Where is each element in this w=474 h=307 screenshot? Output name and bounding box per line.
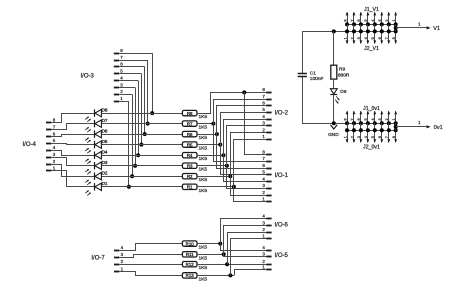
wire I/O-3 pin 7 to D7 row [147,60,149,124]
wire D4 anode to R4 [101,155,182,157]
I/O-6 pin 2 [262,227,271,233]
svg-text:5: 5 [364,19,368,21]
svg-text:1: 1 [392,118,396,120]
I/O-2 pin 6 [262,101,271,106]
wire R1 net to I/O-2 pin 1 [234,140,267,187]
I/O-3 pin 1 [114,96,129,102]
svg-text:I/O-1: I/O-1 [275,173,289,179]
svg-text:R2: R2 [187,174,193,179]
junction node R6 net [215,132,219,136]
wire I/O-4 pin 4 to D4 cathode [51,151,94,156]
svg-text:8: 8 [392,136,396,138]
connector I/O-2 label [275,110,289,116]
I/O-4 pin 2 [46,159,56,165]
wire R12 output to I/O-5 pin 2 [197,264,266,266]
svg-text:6: 6 [378,136,382,138]
svg-text:8: 8 [343,19,347,21]
junction node GND [332,121,336,125]
connector I/O-5 label [275,253,289,259]
I/O-6 pin 1 [262,234,271,239]
wire D5 anode to R5 [101,144,182,146]
junction node D1/I-O-3 [127,185,131,189]
wire R6 net to I/O-1 pin 6 [217,134,267,168]
svg-text:R11: R11 [186,252,194,257]
svg-text:2: 2 [350,136,354,138]
junction node D2/I-O-3 [130,174,134,178]
wire R12 net to I/O-6 pin 2 [228,233,267,265]
I/O-7 pin 4 [114,245,124,250]
wire I/O-7 pin 4 to R10 [119,244,182,251]
diode D3 [85,160,108,174]
I/O-1 pin 3 [262,183,271,188]
resistor R2 1K5 [182,174,207,184]
wire R8 output to I/O-2 pin 8 [197,93,266,114]
wire R13 net to I/O-5 pin 1 [235,270,267,276]
svg-text:4: 4 [364,136,368,138]
resistor R4 1K5 [182,153,207,163]
wire D9 to GND node [333,95,335,124]
I/O-3 pin 3 [114,82,135,87]
svg-text:D7: D7 [102,118,108,123]
I/O-4 pin 3 [46,152,56,158]
svg-text:3: 3 [378,118,382,120]
svg-text:D1: D1 [102,181,108,186]
I/O-5 pin 3 [262,252,271,257]
svg-text:D2: D2 [102,171,108,176]
connector J2_V1 [343,24,397,51]
junction node D7/I-O-3 [146,122,150,126]
svg-text:6: 6 [357,19,361,21]
svg-text:D4: D4 [102,150,108,155]
I/O-7 pin 3 [114,252,124,257]
wire R7 output [197,123,213,125]
I/O-5 pin 1 [262,265,271,270]
svg-text:R5: R5 [187,142,193,147]
wire R4 output [197,155,224,157]
connector I/O-7 label [91,255,105,261]
svg-text:1K5: 1K5 [199,245,208,251]
connector I/O-6 label [275,223,289,229]
svg-text:D5: D5 [102,139,108,144]
wire R1 net to I/O-1 pin 1 [234,187,267,202]
svg-text:R13: R13 [186,273,195,278]
svg-text:6: 6 [378,37,382,39]
connector I/O-3 label [81,74,95,80]
I/O-4 pin 4 [46,145,56,150]
wire D7 anode to R7 [101,123,182,125]
svg-text:100nF: 100nF [310,76,324,82]
wire I/O-7 pin 2 to R12 [119,264,182,266]
svg-text:I/O-2: I/O-2 [275,110,289,116]
svg-text:5: 5 [364,118,368,120]
wire I/O-4 pin 1 to D1 cathode [51,171,94,187]
svg-text:R10: R10 [186,241,195,246]
diode D5 [85,139,108,153]
wire I/O-3 pin 4 to D4 row [138,81,140,156]
I/O-1 pin 6 [262,163,271,169]
svg-text:1: 1 [392,19,396,21]
wire D3 anode to R3 [101,165,182,167]
I/O-7 pin 2 [114,259,124,265]
wire D2 anode to R2 [101,176,182,178]
wire V1 bus upper [347,24,396,26]
I/O-6 pin 3 [262,220,271,225]
junction node R8 net [242,90,246,94]
svg-text:J2_0v1: J2_0v1 [363,145,380,151]
I/O-4 pin 7 [46,124,56,129]
resistor R1 1K5 [182,184,207,194]
capacitor C1 100nF [298,71,324,82]
junction node R10 net [218,242,222,246]
svg-text:1: 1 [343,136,347,138]
wire I/O-4 pin 6 to D6 cathode [51,135,94,137]
svg-text:6: 6 [357,118,361,120]
svg-text:C1: C1 [310,71,316,77]
wire I/O-4 pin 5 to D5 cathode [51,144,94,145]
resistor R5 1K5 [182,142,207,152]
svg-text:0v1: 0v1 [434,125,443,131]
connector J1_V1 [343,7,397,26]
net flag V1 [394,21,440,32]
I/O-7 pin 1 [114,266,124,271]
wire R10 output [197,243,220,245]
diode D8 [85,108,108,122]
wire I/O-3 pin 8 to D8 row [152,53,154,113]
wire D6 anode to R6 [101,134,182,136]
wire D1 anode to R1 [101,186,182,188]
I/O-3 pin 2 [114,89,132,94]
wire R3 output [197,165,227,167]
junction node R11 net [222,252,226,256]
I/O-2 pin 5 [262,107,271,112]
wire R13 net to I/O-6 pin 1 [231,239,267,276]
wire R5 net to I/O-2 pin 5 [221,113,267,145]
wire 0v1 bus upper [347,123,396,125]
svg-text:D9: D9 [340,89,346,95]
I/O-2 pin 8 [262,87,271,92]
svg-text:4: 4 [371,19,375,21]
svg-text:R8: R8 [187,111,193,116]
net flag 0v1 [394,120,443,131]
svg-text:7: 7 [385,136,389,138]
I/O-1 pin 8 [262,149,271,154]
svg-text:1K5: 1K5 [199,255,208,261]
I/O-1 pin 2 [262,190,271,196]
diode D2 [85,171,108,185]
I/O-1 pin 7 [262,156,271,161]
junction node R5 net [218,143,222,147]
junction node R4 net [222,153,226,157]
I/O-2 pin 7 [262,94,271,100]
svg-text:3: 3 [357,136,361,138]
wire R9 to D9 [333,79,335,88]
wire R2 net to I/O-1 pin 2 [231,176,267,195]
wire I/O-4 pin 8 to D8 cathode [51,114,94,123]
resistor R10 1K5 [182,241,207,251]
svg-text:1K5: 1K5 [199,125,208,131]
junction node R7 net [211,122,215,126]
I/O-2 pin 2 [262,127,271,132]
svg-text:D8: D8 [102,108,108,113]
svg-text:R6: R6 [187,132,193,137]
svg-text:2: 2 [385,118,389,120]
resistor R8 1K5 [182,110,207,120]
wire I/O-4 pin 2 to D2 cathode [51,165,94,177]
svg-text:1K5: 1K5 [199,188,208,194]
junction node R13 net [228,273,232,277]
resistor R3 1K5 [182,163,207,173]
I/O-3 pin 8 [114,48,152,54]
svg-text:4: 4 [364,37,368,39]
junction node D6/I-O-3 [143,132,147,136]
I/O-3 pin 6 [114,62,145,67]
wire R4 net to I/O-1 pin 4 [224,155,267,181]
svg-text:1K5: 1K5 [199,276,208,282]
svg-text:R12: R12 [186,262,195,267]
I/O-4 pin 6 [46,131,56,136]
svg-text:J1_V1: J1_V1 [364,7,379,13]
svg-text:1K5: 1K5 [199,135,208,141]
junction node D4/I-O-3 [136,153,140,157]
I/O-6 pin 4 [262,214,271,219]
wire I/O-3 pin 6 to D6 row [144,67,146,134]
svg-text:D3: D3 [102,160,108,165]
svg-text:2: 2 [350,37,354,39]
resistor R11 1K5 [182,252,207,262]
wire R3 net to I/O-1 pin 3 [227,166,267,189]
wire R10 net to I/O-5 pin 4 [221,244,267,251]
junction node D3/I-O-3 [133,164,137,168]
junction node R12 net [225,262,229,266]
svg-text:4: 4 [371,118,375,120]
wire R13 output [197,275,234,277]
I/O-3 pin 5 [114,69,142,74]
svg-text:7: 7 [385,37,389,39]
wire R5 output [197,144,220,146]
wire R4 net to I/O-2 pin 4 [224,120,267,156]
resistor R7 1K5 [182,121,207,131]
wire R3 net to I/O-2 pin 3 [227,126,267,166]
svg-text:5: 5 [371,37,375,39]
wire I/O-3 pin 2 to D2 row [132,94,134,176]
svg-text:1K5: 1K5 [199,156,208,162]
I/O-5 pin 4 [262,245,271,251]
wire V1 bus to C1 [302,31,304,73]
wire V1 bus lower / net V1 [302,31,395,33]
svg-text:1: 1 [343,37,347,39]
LED D9 [330,89,346,104]
connector I/O-4 label [23,142,37,148]
connector J2_0v1 [343,123,397,150]
svg-text:3: 3 [357,37,361,39]
svg-text:I/O-4: I/O-4 [23,142,37,148]
connector J1_0v1 [343,106,397,125]
wire I/O-4 pin 3 to D3 cathode [51,158,94,166]
wire D8 anode to R8 [101,113,182,115]
svg-text:1K5: 1K5 [199,265,208,271]
svg-text:R7: R7 [187,121,193,126]
I/O-1 pin 5 [262,170,271,175]
svg-text:1K5: 1K5 [199,146,208,152]
wire I/O-4 pin 7 to D7 cathode [51,124,94,130]
wire R7 net to I/O-2 pin 7 [214,100,267,124]
wire R1 output [197,186,234,188]
wire R8 net to I/O-1 pin 8 [245,92,267,154]
svg-text:680R: 680R [338,73,350,79]
wire I/O-7 pin 3 to R11 [119,255,182,258]
svg-text:1K5: 1K5 [199,114,208,120]
ground GND symbol [328,125,339,139]
resistor R12 1K5 [182,262,207,272]
svg-text:R9: R9 [339,66,345,72]
svg-text:7: 7 [350,19,354,21]
wire 0v1 bus lower [347,130,396,132]
diode D7 [85,118,108,132]
svg-text:5: 5 [371,136,375,138]
svg-text:I/O-7: I/O-7 [91,255,105,261]
svg-text:V1: V1 [433,26,440,32]
I/O-4 pin 8 [46,118,56,123]
junction node R9/V1 [332,29,336,33]
svg-text:GND: GND [328,132,339,138]
I/O-4 pin 1 [46,166,56,171]
wire R11 output [197,254,224,256]
svg-text:2: 2 [385,19,389,21]
wire R5 net to I/O-1 pin 5 [221,145,267,175]
diode D6 [85,129,108,143]
I/O-1 pin 1 [262,197,271,202]
svg-text:8: 8 [343,118,347,120]
I/O-1 pin 4 [262,177,271,182]
resistor R9 680R [331,65,350,79]
svg-text:J1_0v1: J1_0v1 [363,106,380,112]
svg-text:1K5: 1K5 [199,177,208,183]
junction node D5/I-O-3 [139,143,143,147]
I/O-4 pin 5 [46,138,56,143]
wire R6 output [197,134,217,136]
wire I/O-3 pin 3 to D3 row [135,88,137,166]
wire R2 output [197,176,230,178]
wire C1 to GND rail [303,77,348,124]
svg-text:I/O-5: I/O-5 [275,253,289,259]
wire R10 net to I/O-6 pin 4 [221,219,267,244]
I/O-2 pin 4 [262,114,271,120]
resistor R13 1K5 [182,273,207,283]
wire R11 net to I/O-6 pin 3 [224,226,267,255]
I/O-2 pin 1 [262,134,271,140]
I/O-5 pin 2 [262,259,271,265]
svg-text:I/O-6: I/O-6 [275,223,289,229]
svg-text:7: 7 [350,118,354,120]
wire V1 to R9 [333,31,335,65]
resistor R6 1K5 [182,131,207,141]
I/O-3 pin 7 [114,55,148,61]
svg-text:D6: D6 [102,129,108,134]
junction node R2 net [228,174,232,178]
junction node R1 net [232,185,236,189]
wire R6 net to I/O-2 pin 6 [217,106,267,135]
diode D1 [85,181,108,195]
wire I/O-7 pin 1 to R13 [119,272,182,276]
svg-text:J2_V1: J2_V1 [364,46,379,52]
wire I/O-3 pin 1 to D1 row [128,101,130,187]
diode D4 [85,150,108,164]
wire R11 net to I/O-5 pin 3 [224,254,267,256]
svg-text:1K5: 1K5 [199,167,208,173]
svg-text:R3: R3 [187,164,193,169]
I/O-2 pin 3 [262,121,271,126]
wire I/O-3 pin 5 to D5 row [141,74,143,145]
junction node D8/I-O-3 [150,111,154,115]
connector I/O-1 label [275,173,289,179]
svg-text:R1: R1 [187,185,193,190]
svg-text:I/O-3: I/O-3 [81,74,95,80]
svg-text:R4: R4 [187,153,193,158]
svg-text:3: 3 [378,19,382,21]
wire R2 net to I/O-2 pin 2 [231,133,267,177]
wire R7 net to I/O-1 pin 7 [214,124,267,162]
junction node R3 net [225,164,229,168]
I/O-3 pin 4 [114,75,138,80]
svg-text:8: 8 [392,37,396,39]
